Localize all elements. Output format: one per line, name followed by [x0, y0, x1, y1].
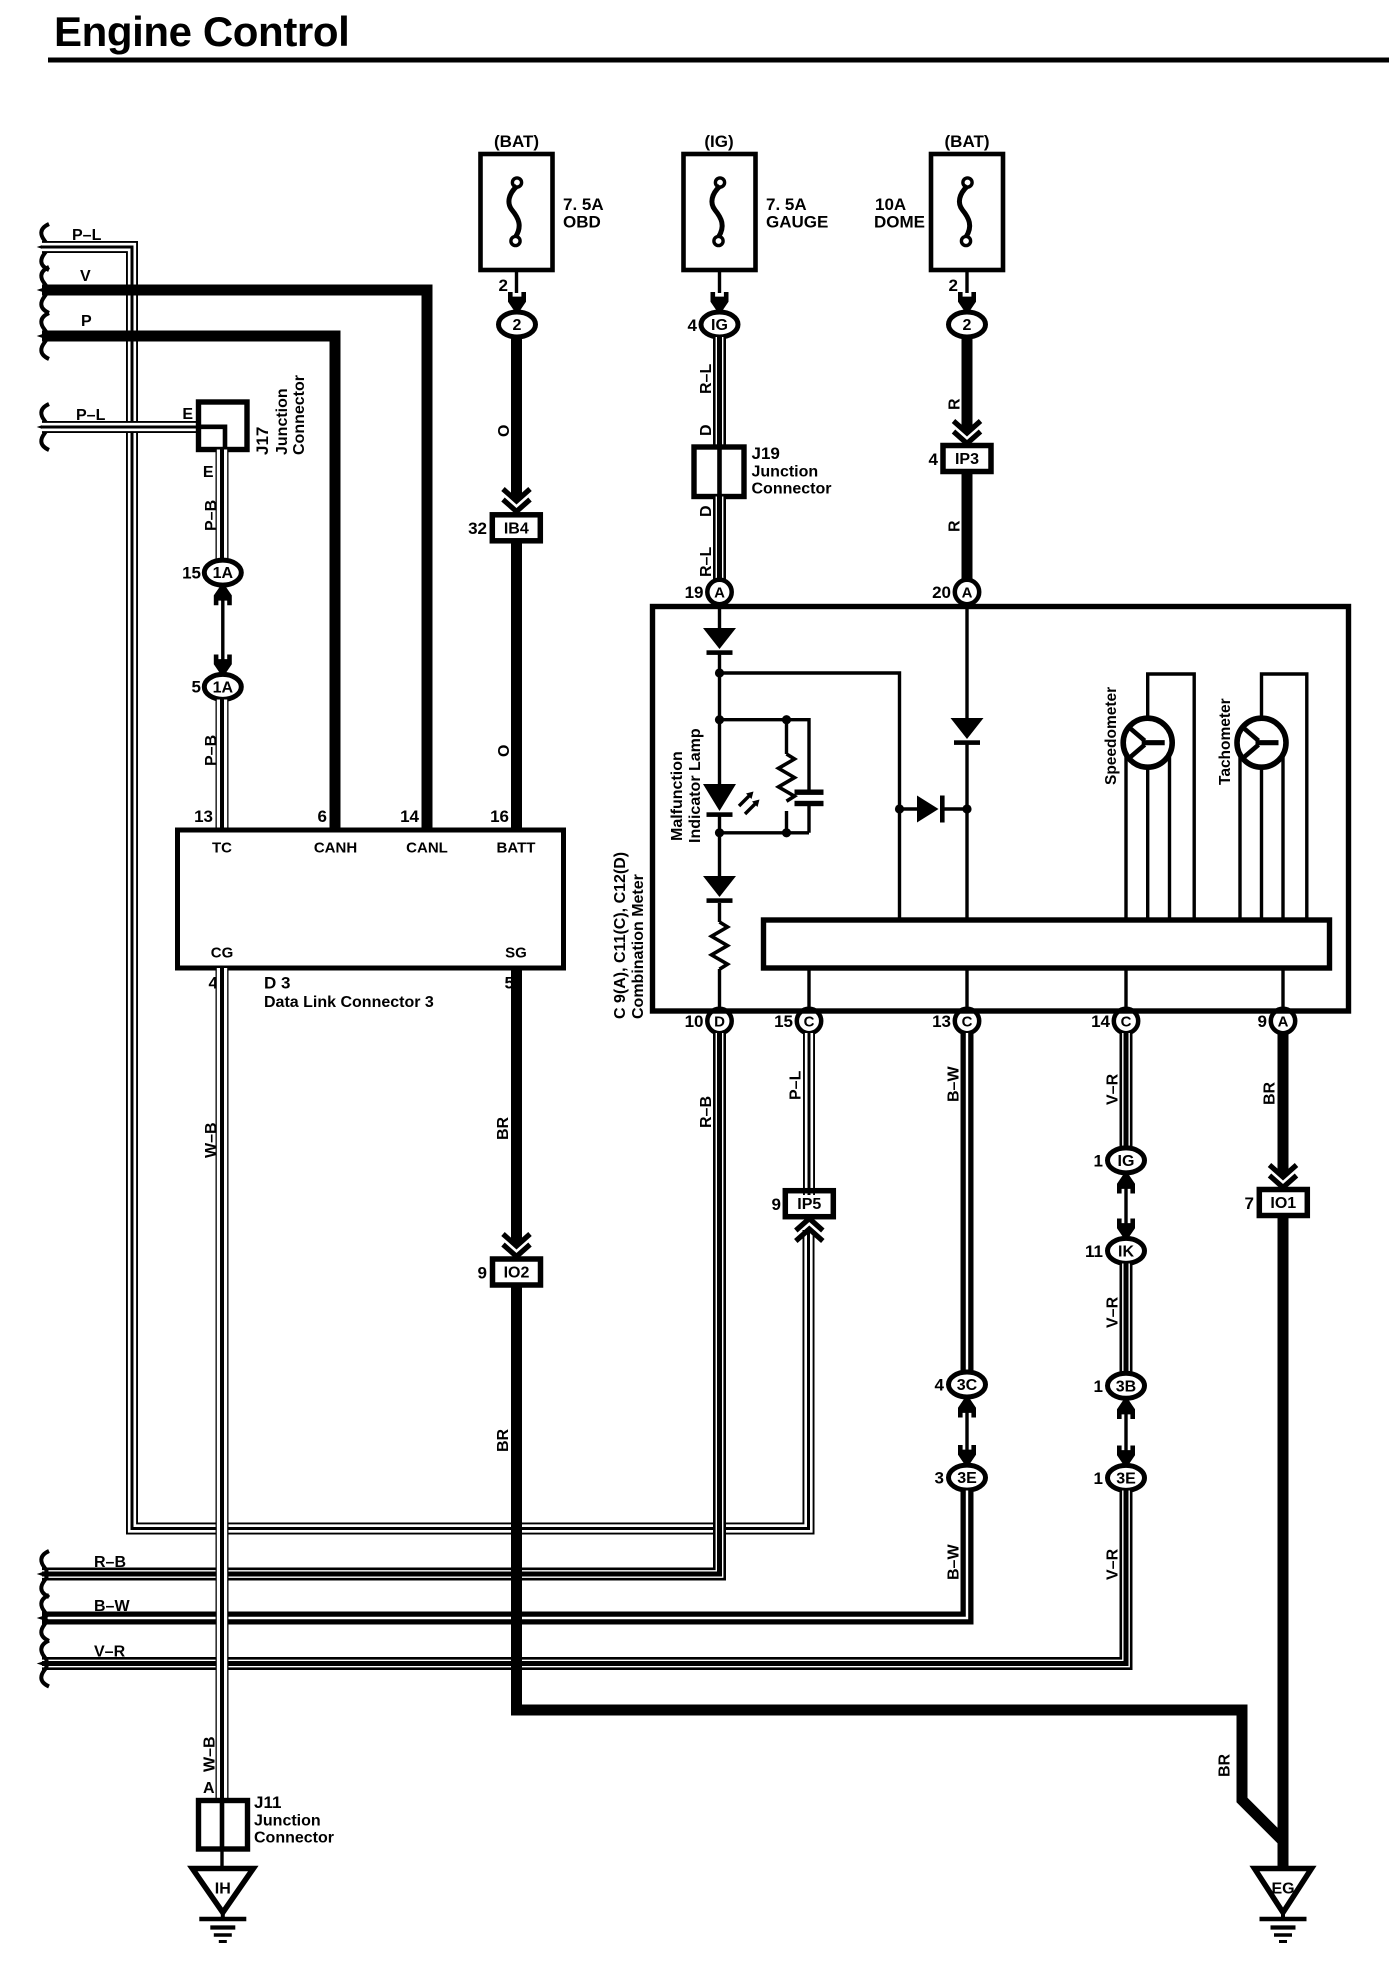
svg-text:3B: 3B	[1116, 1378, 1136, 1395]
wire R-L (J19 to pin 19)	[716, 497, 722, 581]
svg-text:11: 11	[1085, 1242, 1103, 1261]
svg-text:IG: IG	[711, 317, 728, 334]
connector 1A lower	[204, 674, 241, 699]
svg-text:Indicator Lamp: Indicator Lamp	[687, 728, 704, 843]
svg-text:7: 7	[1245, 1194, 1254, 1213]
svg-text:IB4: IB4	[504, 520, 529, 537]
diode D2 (meter internal)	[703, 876, 736, 903]
svg-text:Tachometer: Tachometer	[1217, 698, 1234, 785]
svg-text:5: 5	[192, 678, 201, 697]
pin 14 (C) of combination meter	[1114, 1009, 1138, 1033]
svg-text:Connector: Connector	[291, 375, 308, 455]
svg-text:Connector: Connector	[254, 1830, 334, 1847]
connector arrow into 2 dome	[958, 292, 976, 312]
diode D4 (meter internal, horizontal)	[917, 796, 945, 823]
harness stub bracket P	[41, 313, 49, 359]
svg-text:15: 15	[182, 564, 201, 583]
connector IG coupling	[1108, 1148, 1145, 1173]
svg-text:Connector: Connector	[752, 481, 832, 498]
svg-text:IO1: IO1	[1270, 1195, 1296, 1212]
pin 20 (A) of combination meter	[955, 580, 979, 604]
wire diode to LED	[718, 654, 721, 784]
svg-text:V–R: V–R	[1105, 1296, 1122, 1328]
svg-text:TC: TC	[212, 840, 232, 857]
harness stub bracket B-W	[41, 1595, 49, 1641]
wire tachometer right	[1281, 752, 1284, 920]
connector IG	[701, 312, 738, 337]
wire fuse DOME to connector 2	[965, 270, 968, 293]
wire R (IP3 to pin 20)	[962, 471, 973, 580]
svg-text:9: 9	[478, 1264, 487, 1283]
svg-text:14: 14	[1091, 1012, 1110, 1031]
svg-text:V: V	[80, 268, 91, 285]
connector 1A upper	[204, 560, 241, 585]
svg-text:A: A	[1278, 1014, 1289, 1031]
svg-text:R–B: R–B	[94, 1554, 126, 1571]
wire resistor top stub	[785, 720, 788, 754]
svg-text:R–B: R–B	[698, 1096, 715, 1128]
diode D1 (meter internal)	[703, 628, 736, 655]
junction resistor top	[782, 715, 791, 724]
junction connector J19	[694, 447, 744, 497]
connector 2 (DOME)	[949, 312, 986, 337]
wire internal rail to diode branch	[720, 673, 900, 920]
svg-text:7. 5A: 7. 5A	[766, 195, 807, 214]
svg-text:20: 20	[932, 583, 951, 602]
svg-text:1: 1	[1094, 1469, 1103, 1488]
svg-text:3E: 3E	[957, 1470, 977, 1487]
svg-text:1A: 1A	[213, 679, 234, 696]
svg-text:16: 16	[490, 807, 509, 826]
wire P-B (1A to TC)	[218, 700, 225, 830]
svg-text:V–R: V–R	[94, 1644, 126, 1661]
svg-text:3E: 3E	[1116, 1470, 1136, 1487]
svg-text:C: C	[962, 1014, 973, 1031]
wire RC bottom rail	[720, 806, 810, 833]
chevrons into IO2	[503, 1234, 530, 1257]
svg-text:J11: J11	[254, 1793, 281, 1812]
junction RC top	[715, 715, 724, 724]
harness stub bracket V-R	[41, 1641, 49, 1687]
svg-text:Combination Meter: Combination Meter	[630, 874, 647, 1019]
svg-text:E: E	[203, 464, 214, 481]
wire fuse GAUGE to IG	[718, 270, 721, 293]
svg-text:Junction: Junction	[274, 388, 291, 455]
wire P-L into J17	[42, 424, 199, 430]
wire speedometer right	[1168, 752, 1171, 920]
svg-text:D 3: D 3	[264, 974, 290, 993]
wire W-B (CG to J11)	[218, 968, 225, 1801]
svg-text:EG: EG	[1271, 1881, 1294, 1898]
connector 3E left	[949, 1465, 986, 1490]
svg-text:2: 2	[513, 317, 522, 334]
svg-text:A: A	[203, 1780, 215, 1797]
chevrons into IO1	[1270, 1165, 1297, 1188]
svg-text:2: 2	[949, 276, 958, 295]
svg-text:3C: 3C	[957, 1377, 978, 1394]
harness stub bracket V	[41, 267, 49, 313]
svg-text:Data Link Connector 3: Data Link Connector 3	[264, 994, 434, 1011]
wire BR (SG to IO2)	[511, 968, 522, 1244]
svg-text:BR: BR	[1217, 1753, 1234, 1777]
svg-text:Malfunction: Malfunction	[669, 751, 686, 841]
connector IK	[1108, 1238, 1145, 1263]
svg-text:P–L: P–L	[788, 1070, 805, 1100]
connector IB4	[492, 515, 540, 541]
svg-text:IK: IK	[1118, 1243, 1134, 1260]
pin 13 (C) of combination meter	[955, 1009, 979, 1033]
svg-text:Engine Control: Engine Control	[54, 8, 349, 55]
fuse 7.5A OBD	[481, 154, 553, 270]
title underline	[48, 58, 1389, 63]
wire resistor bottom stub	[785, 811, 788, 833]
junction node to diode branch	[715, 668, 724, 677]
harness stub bracket R-B	[41, 1551, 49, 1597]
svg-text:D: D	[714, 1014, 725, 1031]
svg-text:IH: IH	[215, 1881, 231, 1898]
diode D3 (meter internal)	[951, 718, 984, 745]
wire speedometer top bypass	[1148, 674, 1195, 920]
connector arrow up into 1A	[214, 585, 232, 605]
wire O (2 to IB4)	[511, 337, 522, 499]
wire P (stub to CANH)	[42, 336, 335, 829]
svg-text:A: A	[962, 585, 973, 602]
wire resistor R2 to pin 10	[718, 969, 721, 1010]
wire bar to pin 13	[965, 968, 968, 1010]
junction RC bottom	[715, 828, 724, 837]
svg-text:SG: SG	[505, 945, 527, 962]
svg-text:(BAT): (BAT)	[494, 132, 539, 151]
svg-text:P–B: P–B	[203, 500, 220, 531]
connector IO2	[493, 1259, 541, 1285]
pin 19 (A) of combination meter	[707, 580, 731, 604]
wire to diode D4	[900, 807, 918, 810]
svg-text:B–W: B–W	[946, 1544, 963, 1580]
svg-text:1: 1	[1094, 1377, 1103, 1396]
svg-text:CANL: CANL	[406, 840, 448, 857]
connector arrow down into IK	[1117, 1219, 1135, 1239]
svg-text:14: 14	[400, 807, 419, 826]
wire tachometer top bypass	[1262, 674, 1307, 920]
svg-text:7. 5A: 7. 5A	[563, 195, 604, 214]
wire between 1A connectors	[221, 600, 224, 660]
svg-text:4: 4	[688, 316, 698, 335]
wire speedometer left	[1124, 752, 1127, 920]
svg-text:Junction: Junction	[254, 1813, 321, 1830]
svg-text:(BAT): (BAT)	[945, 132, 990, 151]
wire R-L (IG to J19)	[716, 337, 722, 447]
connector arrow down into 1A	[214, 655, 232, 675]
pin 9 (A) of combination meter	[1271, 1009, 1295, 1033]
svg-text:BR: BR	[495, 1428, 512, 1452]
svg-text:R–L: R–L	[698, 364, 715, 394]
svg-text:15: 15	[774, 1012, 793, 1031]
svg-text:10: 10	[685, 1012, 704, 1031]
svg-text:R: R	[947, 398, 964, 410]
svg-text:IP5: IP5	[797, 1196, 821, 1213]
wire bar to pin 15	[807, 968, 810, 1010]
svg-text:J19: J19	[752, 444, 780, 463]
svg-text:R–L: R–L	[698, 547, 715, 577]
svg-text:Junction: Junction	[752, 464, 819, 481]
pin 10 (D) of combination meter	[707, 1009, 731, 1033]
svg-text:B–W: B–W	[94, 1598, 130, 1615]
harness stub bracket P-L lower	[41, 404, 49, 450]
svg-text:1A: 1A	[213, 565, 234, 582]
wire BR (IO1 to ground EG)	[1278, 1216, 1289, 1870]
wire V-R (3E to stub)	[42, 1491, 1129, 1667]
svg-text:CG: CG	[211, 945, 234, 962]
svg-text:C: C	[804, 1014, 815, 1031]
connector 3E right	[1108, 1465, 1145, 1490]
wire R (2 to IP3)	[962, 337, 973, 431]
junction connector J11	[199, 1801, 248, 1850]
connector arrow up into 3B	[1117, 1399, 1135, 1419]
wire between 3C and 3E	[965, 1412, 968, 1450]
wire RC top rail	[720, 720, 810, 790]
wire B-W (3E to stub)	[42, 1491, 967, 1619]
wire B-W (pin 13 to 3C)	[961, 1033, 974, 1372]
data link connector D3 box	[178, 830, 564, 968]
wire V (stub to CANL)	[42, 290, 427, 829]
svg-text:A: A	[714, 585, 725, 602]
svg-text:OBD: OBD	[563, 213, 601, 232]
svg-text:V–R: V–R	[1105, 1548, 1122, 1580]
connector 3B	[1108, 1373, 1145, 1398]
wire diode D2 to resistor R2	[718, 903, 721, 922]
svg-text:D: D	[698, 505, 715, 517]
svg-text:9: 9	[772, 1195, 781, 1214]
svg-text:O: O	[496, 425, 513, 437]
svg-text:DOME: DOME	[874, 213, 925, 232]
svg-text:IG: IG	[1118, 1153, 1135, 1170]
wire LED to diode D2	[718, 816, 721, 876]
svg-text:P: P	[81, 313, 92, 330]
fuse 7.5A GAUGE	[684, 154, 756, 270]
svg-text:IP3: IP3	[955, 451, 979, 468]
wire fuse OBD to connector 2	[515, 270, 518, 293]
connector arrow into 2	[508, 292, 526, 312]
connector arrow down into 3E right	[1117, 1446, 1135, 1466]
ground IH	[192, 1869, 253, 1942]
chevrons into IB4	[503, 489, 530, 512]
svg-text:13: 13	[932, 1012, 951, 1031]
svg-text:CANH: CANH	[314, 840, 357, 857]
wire bar to pin 9	[1281, 968, 1284, 1010]
LED malfunction indicator lamp	[703, 784, 760, 817]
svg-text:BR: BR	[495, 1116, 512, 1140]
svg-text:Speedometer: Speedometer	[1103, 687, 1120, 785]
connector 2 (OBD)	[499, 312, 536, 337]
wire between 3B and 3E	[1124, 1413, 1127, 1451]
harness stub bracket P-L top	[41, 224, 49, 270]
svg-text:4: 4	[929, 450, 939, 469]
capacitor C1	[795, 790, 824, 807]
combination meter box	[653, 607, 1349, 1012]
connector arrow up into 3C	[958, 1398, 976, 1418]
wire tachometer centre	[1260, 766, 1263, 920]
ground EG	[1255, 1869, 1312, 1942]
svg-text:C: C	[1121, 1014, 1132, 1031]
wire pin19 to diode	[718, 606, 721, 628]
resistor R1 (parallel with capacitor)	[779, 754, 795, 801]
svg-text:W–B: W–B	[203, 1122, 220, 1158]
connector arrow down into 3E	[958, 1445, 976, 1465]
wire J11 to ground IH	[220, 1849, 223, 1869]
svg-text:2: 2	[499, 276, 508, 295]
chevrons into IP5	[796, 1219, 823, 1242]
wire BR (pin 9 to IO1)	[1278, 1033, 1289, 1175]
svg-text:(IG): (IG)	[704, 132, 733, 151]
pin 15 (C) of combination meter	[797, 1009, 821, 1033]
svg-text:9: 9	[1258, 1012, 1267, 1031]
svg-text:32: 32	[468, 519, 487, 538]
speedometer gauge	[1123, 718, 1172, 767]
svg-text:V–R: V–R	[1105, 1073, 1122, 1105]
junction diode D4 anode	[895, 804, 904, 813]
svg-text:J17: J17	[253, 427, 272, 455]
svg-text:2: 2	[963, 317, 972, 334]
svg-text:10A: 10A	[875, 195, 906, 214]
wire diode D3 to ECU bar	[965, 744, 968, 920]
wire O (IB4 to BATT)	[511, 541, 522, 829]
wire V-R (pin 14 to IG)	[1123, 1033, 1129, 1148]
tachometer gauge	[1237, 718, 1286, 767]
connector IO1	[1259, 1190, 1307, 1216]
wire V-R (IK to 3B)	[1123, 1264, 1129, 1374]
connector arrow up into IG	[1117, 1174, 1135, 1194]
wire P-L (pin 15 to IP5)	[806, 1033, 812, 1195]
connector arrow into IG	[711, 292, 729, 312]
wire P-B (J17 to 1A)	[218, 450, 225, 562]
svg-text:3: 3	[935, 1469, 944, 1488]
wire R-B (pin 10 to stub)	[42, 1033, 723, 1577]
svg-text:R: R	[947, 520, 964, 532]
wire bar to pin 14	[1124, 968, 1127, 1010]
svg-text:E: E	[182, 406, 193, 423]
svg-text:P–B: P–B	[203, 735, 220, 766]
junction resistor bottom	[782, 828, 791, 837]
wire speedometer centre	[1146, 766, 1149, 920]
svg-text:O: O	[496, 745, 513, 757]
svg-text:GAUGE: GAUGE	[766, 213, 828, 232]
svg-text:C 9(A), C11(C), C12(D): C 9(A), C11(C), C12(D)	[612, 852, 629, 1019]
resistor R2 (meter internal)	[712, 922, 728, 969]
svg-text:13: 13	[194, 807, 213, 826]
wire pin20 down	[965, 606, 968, 718]
connector IP3	[943, 446, 991, 472]
connector IP5	[785, 1191, 833, 1217]
chevrons into IP3	[954, 421, 981, 444]
svg-text:4: 4	[935, 1376, 945, 1395]
junction diode D4 cathode	[962, 804, 971, 813]
svg-text:D: D	[698, 424, 715, 436]
fuse 10A DOME	[931, 154, 1003, 270]
connector 3C	[949, 1372, 986, 1397]
wire tachometer left	[1238, 752, 1241, 920]
svg-text:W–B: W–B	[202, 1736, 219, 1772]
wire between IG and IK	[1124, 1188, 1127, 1224]
svg-text:BATT: BATT	[497, 840, 536, 857]
meter internal ECU bar	[764, 920, 1330, 968]
svg-text:IO2: IO2	[504, 1265, 530, 1282]
junction connector J17	[199, 402, 248, 450]
svg-text:6: 6	[318, 807, 327, 826]
wire BR (IO2 to ground EG)	[517, 1285, 1284, 1841]
wire P-L (stub to IP5)	[42, 244, 811, 1531]
svg-text:1: 1	[1094, 1152, 1103, 1171]
svg-text:BR: BR	[1262, 1081, 1279, 1105]
svg-text:B–W: B–W	[946, 1066, 963, 1102]
wire diode D4 to pin20 branch	[945, 807, 968, 810]
svg-text:19: 19	[685, 583, 704, 602]
